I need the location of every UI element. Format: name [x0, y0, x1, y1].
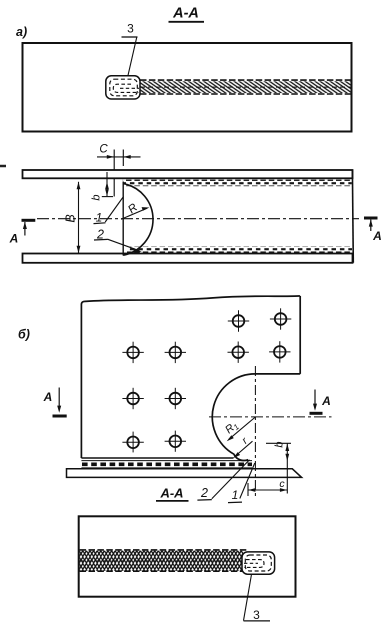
callout 1 (view b) — [228, 463, 255, 503]
weld seam under top flange — [123, 180, 352, 187]
weld bead (view a) — [140, 80, 352, 94]
web edge chord line — [122, 182, 124, 256]
scallop arc radius R (section) — [123, 184, 153, 256]
section mark A right — [364, 218, 382, 243]
weld seam above flange (view b) — [81, 461, 252, 468]
svg-text:c: c — [279, 478, 285, 490]
plate outline view a — [23, 43, 352, 132]
section mark A left (view b) — [43, 388, 67, 417]
radius arrow R — [121, 202, 149, 220]
svg-text:А: А — [43, 390, 53, 404]
svg-text:а): а) — [16, 25, 27, 39]
svg-text:2: 2 — [200, 486, 208, 500]
weld termination detail 3 (view a) — [106, 76, 140, 99]
svg-text:3: 3 — [253, 608, 260, 622]
centre line (section) — [37, 218, 359, 220]
svg-text:B: B — [64, 214, 78, 222]
callout 3 (view a) — [122, 21, 138, 76]
svg-text:C: C — [99, 143, 108, 155]
title A-A (bottom) — [156, 486, 189, 501]
title A-A (top) — [169, 6, 205, 22]
section mark A left — [9, 220, 36, 245]
bottom flange plate (section) — [23, 254, 353, 263]
centre line vertical (view b) — [254, 366, 256, 498]
callout 2 (section) — [94, 227, 142, 252]
holes with centre crosses — [122, 308, 291, 452]
callout 2 (view b) — [197, 460, 249, 500]
dimension b (view b) — [266, 441, 291, 493]
scan artifact tick left edge — [0, 165, 6, 168]
svg-text:А-А: А-А — [159, 486, 183, 501]
weld seam above bottom flange — [127, 247, 352, 254]
svg-text:b: b — [91, 194, 103, 200]
dimension b (section) — [91, 172, 114, 201]
radius arrow R1 — [223, 417, 255, 441]
weld end edge (right end cap) — [351, 170, 354, 263]
callout 3 (bottom view) — [244, 574, 271, 622]
top flange plate (section) — [23, 170, 353, 178]
section mark A right (view b) — [310, 390, 331, 414]
weld termination detail 3 (bottom view) — [242, 552, 275, 574]
svg-text:б): б) — [18, 328, 30, 342]
svg-text:А: А — [9, 232, 19, 246]
svg-text:А-А: А-А — [172, 6, 199, 22]
callout 1 (section) — [94, 197, 124, 225]
svg-text:1: 1 — [96, 210, 103, 224]
weld bead (bottom view) — [80, 550, 247, 571]
svg-text:3: 3 — [127, 21, 134, 35]
dimension C — [97, 143, 141, 196]
radius arrow r — [233, 435, 253, 458]
dimension B — [64, 182, 81, 253]
bottom flange (view b) — [67, 469, 302, 478]
dimension c (view b) — [248, 478, 287, 496]
svg-text:b: b — [274, 441, 286, 447]
plate outline bottom view — [79, 516, 296, 596]
centre line horizontal (view b) — [209, 416, 332, 418]
svg-text:1: 1 — [232, 488, 239, 502]
svg-text:А: А — [372, 229, 382, 243]
svg-text:А: А — [321, 394, 331, 408]
gusset plate outline — [81, 296, 300, 461]
